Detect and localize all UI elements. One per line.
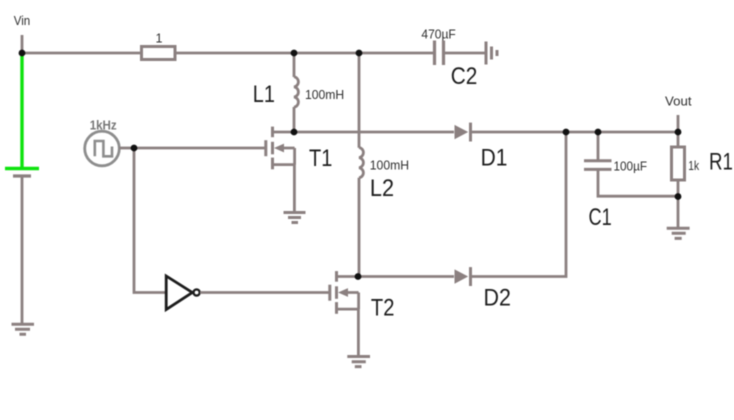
capacitor C1 [584,161,612,170]
node T1 drain junction [291,129,298,136]
inductor L1 [294,77,298,107]
source V2 square wave circle [85,131,120,166]
svg-text:1k: 1k [688,159,699,173]
wire C1 bottom to R1 bottom [598,169,678,196]
svg-text:L1: L1 [253,81,275,108]
svg-text:C2: C2 [451,63,478,90]
svg-text:R1: R1 [709,148,733,175]
svg-text:L2: L2 [370,175,394,202]
ground (T1 source) [284,213,306,223]
ground (battery) [12,324,35,334]
wire output node down to D2 [469,132,566,277]
resistor (1 ohm) [142,47,176,60]
svg-text:Vin: Vin [14,14,31,28]
wire gate node to T1 gate [134,147,266,150]
node T2 drain junction [355,273,362,280]
wire top bus middle (resistor to C2) [175,52,434,55]
node D1 cathode junction [563,129,570,136]
transistor T1 arrow [274,144,284,153]
battery V1 negative plate [13,174,31,177]
node R1 top junction [675,129,682,136]
inverter U1 [166,276,200,310]
wire D1 to output node [469,131,678,134]
wire T1 source to ground [293,164,296,213]
wire Vout stub [677,115,680,132]
wire top bus left (Vin node to resistor) [22,52,141,55]
transistor T1 [266,127,295,170]
wire C2 to ground [445,52,486,55]
svg-text:C1: C1 [589,204,612,231]
wire R1 top lead [677,132,680,147]
wire T2 source to ground [357,309,360,357]
svg-text:T1: T1 [309,145,332,172]
node L2 top junction [356,50,363,57]
wire battery negative lead [21,176,24,324]
capacitor C2 [435,41,444,66]
node gate junction [131,145,138,152]
wire Vin stub [21,35,24,53]
diode D2 [455,269,469,283]
svg-text:D2: D2 [484,285,511,312]
node R1 bottom junction [675,193,682,200]
svg-text:100mH: 100mH [370,159,409,173]
resistor R1 [672,147,685,180]
wire source to gate node [119,147,134,150]
node L1 top junction [291,50,298,57]
node C1 top junction [595,129,602,136]
svg-text:T2: T2 [371,295,395,322]
svg-text:Vout: Vout [665,94,692,108]
wire C1 top lead [597,132,600,161]
svg-text:1: 1 [156,32,163,46]
wire L1 bottom lead [293,107,296,132]
ground (T2 source) [347,357,370,367]
ground (R1) [667,228,690,238]
wire T2 drain to D2 [358,275,454,278]
svg-text:470µF: 470µF [421,27,456,41]
wire inverter output to T2 gate [200,291,330,294]
svg-text:100µF: 100µF [614,160,648,174]
ground (sideways, right of C2) [486,42,497,65]
battery V1 positive lead (selected, green) [5,52,39,169]
wire L2 bottom lead [358,178,361,277]
inductor L2 [359,148,363,178]
transistor T2 [330,271,359,314]
wire T1 drain to D1 [294,131,454,134]
wire L2 top lead [358,53,361,148]
wire gate node down to inverter input [134,148,166,293]
node Vin junction [19,50,26,57]
svg-text:D1: D1 [481,144,508,171]
wire L1 top lead [293,53,296,77]
transistor T2 arrow [338,288,348,297]
svg-text:100mH: 100mH [305,88,344,102]
diode D1 [455,125,469,139]
wire R1 bottom to ground [677,180,680,228]
source V2 square wave glyph [95,141,112,156]
